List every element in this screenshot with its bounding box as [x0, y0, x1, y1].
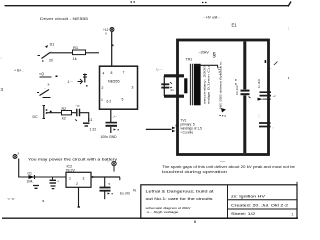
svg-text:1···: 1··· [68, 80, 74, 84]
junction node [50, 111, 52, 113]
sheet bottom border [2, 217, 298, 219]
regulator ground pin wire [78, 187, 80, 206]
svg-text::·:·: :·:· [257, 114, 261, 117]
svg-text:L····: L···· [157, 68, 163, 72]
primary winding bar [184, 78, 187, 93]
svg-text:/··: /·· [114, 115, 117, 119]
gap break mark top [274, 62, 278, 66]
+12V supply symbol [103, 28, 114, 36]
HV lead from secondary [195, 65, 218, 68]
trimmer P1 cluster [68, 74, 88, 86]
corner tick top right [296, 182, 298, 185]
spark gap plates 2 [259, 123, 271, 127]
wire U1 pin1 down [110, 110, 112, 122]
junction on rail [92, 176, 94, 178]
resistor R1 [73, 45, 86, 61]
transformer core lines [190, 64, 192, 106]
svg-text:≈Q: ≈Q [39, 72, 44, 76]
title block divider vertical [227, 185, 229, 219]
switch S2 [39, 72, 58, 87]
svg-text:DC: DC [33, 115, 39, 119]
winding note text block [181, 119, 202, 135]
right margin dot [288, 77, 289, 79]
svg-text:+ B+ .: + B+ . [14, 69, 24, 73]
svg-text:7: 7 [123, 71, 125, 75]
svg-text:100n GND: 100n GND [101, 135, 118, 139]
svg-text:1: 1 [292, 213, 294, 217]
svg-text:out No.1: care for the circuit: out No.1: care for the circuits [146, 197, 213, 201]
diode D1 [27, 172, 35, 184]
svg-text:1: 1 [101, 98, 103, 102]
svg-text:Sheet: 1/2: Sheet: 1/2 [231, 212, 255, 216]
svg-text:wdgs 0,1mm Cu: wdgs 0,1mm Cu [207, 65, 211, 104]
svg-text:zx: Ignition HV: zx: Ignition HV [231, 195, 266, 199]
wire U1 out to HV box terminal [146, 128, 172, 130]
spark gap plates 1 [260, 92, 272, 95]
svg-text::: : [1, 55, 2, 60]
svg-text:C1: C1 [88, 118, 92, 122]
svg-text:~20kV: ~20kV [199, 51, 210, 55]
wire TP1 to R2 [47, 112, 62, 114]
svg-text:·x·· high voltage: ·x·· high voltage [146, 210, 179, 214]
svg-text:3: 3 [132, 86, 134, 90]
svg-text:Ex..Rd: Ex..Rd [120, 192, 130, 196]
svg-text:2n: 2n [171, 88, 175, 92]
svg-text:-·: -· [270, 66, 272, 70]
svg-text:1N4..: 1N4.. [27, 180, 35, 184]
svg-text:·· HV unit ··: ·· HV unit ·· [203, 16, 221, 20]
wall nub terminal [264, 60, 266, 63]
switch S3 [37, 86, 51, 98]
svg-text:6 2: 6 2 [107, 100, 112, 104]
svg-text:NE555: NE555 [108, 80, 120, 84]
svg-text:..: .. [44, 86, 46, 90]
resistor R2 [62, 107, 72, 121]
svg-text:1 22: 1 22 [90, 128, 97, 132]
capacitor C4 [106, 115, 120, 131]
svg-text:1: 1 [69, 177, 71, 181]
svg-text:Lethal & Dangerous; build at: Lethal & Dangerous; build at [146, 190, 214, 194]
svg-text:R1: R1 [73, 45, 79, 50]
top border tick dots left [131, 1, 136, 3]
junction nub on +12V wire [112, 44, 114, 46]
svg-text:··x:: ··x: [75, 104, 80, 108]
svg-text:8: 8 [111, 71, 113, 75]
wire R2 to C3 [72, 112, 77, 114]
wire R1 to U1 [86, 52, 100, 54]
loop capacitor C5 [161, 82, 174, 92]
svg-text:Driver circuit - NE555: Driver circuit - NE555 [40, 16, 89, 21]
svg-text:2: 2 [76, 182, 78, 186]
switch S1 [38, 42, 56, 63]
svg-text:NE 555 driven flyback tr.: NE 555 driven flyback tr. [219, 61, 223, 109]
svg-text:§: § [213, 53, 216, 59]
svg-text:··: ·· [107, 160, 109, 164]
svg-text:S1: S1 [50, 42, 56, 47]
svg-text:Created: 20. Jul. Okt 2·2: Created: 20. Jul. Okt 2·2 [231, 204, 288, 208]
regulator IC2 7812 [66, 165, 92, 188]
wire input down and right [19, 159, 66, 178]
svg-text:1k: 1k [73, 56, 77, 61]
svg-text:–z: –z [273, 94, 277, 98]
rail end tick [119, 177, 121, 180]
svg-text:² Cu wire: ² Cu wire [181, 131, 194, 135]
title block frame [141, 185, 297, 219]
output rail [91, 176, 120, 178]
secondary rotated note [203, 65, 211, 104]
svg-text:V: V [105, 32, 107, 36]
svg-text:E1: E1 [232, 23, 238, 28]
svg-text:78.2V: 78.2V [66, 169, 76, 173]
svg-text:The spark gaps of this unit de: The spark gaps of this unit deliver abou… [162, 165, 295, 169]
svg-text:touched during operation: touched during operation [162, 170, 227, 174]
bottom left dot [43, 200, 44, 202]
svg-text:3: 3 [83, 177, 85, 181]
svg-text:·≈ ·x·: ·≈ ·x· [7, 197, 15, 201]
svg-text:C2 2n2: C2 2n2 [235, 85, 239, 95]
primary resonant loop [157, 68, 185, 97]
svg-text:20: 20 [49, 59, 53, 63]
svg-text:R2: R2 [62, 107, 67, 111]
input terminal [13, 152, 20, 159]
title block row divider 1 [228, 199, 298, 201]
feedthrough terminal on box wall [172, 125, 176, 133]
top border tick dots right [202, 2, 207, 4]
terminal TP1 [33, 106, 48, 120]
ground symbol [83, 118, 96, 132]
svg-text::·: :· [272, 126, 274, 130]
gnd dot [78, 206, 81, 208]
svg-text:·x: ·x [108, 182, 111, 186]
svg-text:5: 5 [122, 98, 124, 102]
sheet top border [5, 2, 292, 7]
svg-text:1n·2kV: 1n·2kV [257, 79, 261, 88]
svg-text:D1: D1 [28, 172, 32, 176]
wire C3 to gnd corner [80, 113, 89, 122]
op IC U1 NE555 [100, 66, 138, 109]
svg-text:TR1: TR1 [186, 58, 193, 62]
svg-text:4: 4 [103, 72, 105, 76]
+12V output terminal [107, 160, 116, 172]
arrow electrode 1 [258, 98, 263, 101]
bottom margin tick [194, 221, 196, 224]
wire C4 down stub [110, 127, 112, 133]
capacitor C7 [100, 177, 114, 199]
svg-text:You may power the circuit with: You may power the circuit with a battery [28, 158, 117, 162]
rotated spec text right of core [219, 61, 223, 109]
svg-text:N: N [133, 188, 136, 193]
svg-text:x·: x· [48, 83, 51, 87]
secondary winding block [194, 64, 201, 106]
title block row divider 2 [228, 208, 298, 210]
svg-text:2: 2 [102, 86, 104, 90]
svg-text::: : [288, 26, 289, 31]
ground at C6 [33, 186, 39, 189]
capacitor C6 [50, 177, 60, 189]
enclosure box [178, 40, 269, 155]
inner HV wire with capacitor C2 [235, 42, 251, 154]
capacitor C3 [75, 104, 80, 121]
spark gap chain on right wall [257, 60, 278, 130]
wire switch to R1 [50, 52, 73, 54]
wire +12V down to U1 [111, 32, 113, 66]
tap terminal mark [221, 108, 226, 113]
svg-text:k2: k2 [62, 117, 66, 121]
svg-text:–––: ––– [220, 160, 226, 164]
